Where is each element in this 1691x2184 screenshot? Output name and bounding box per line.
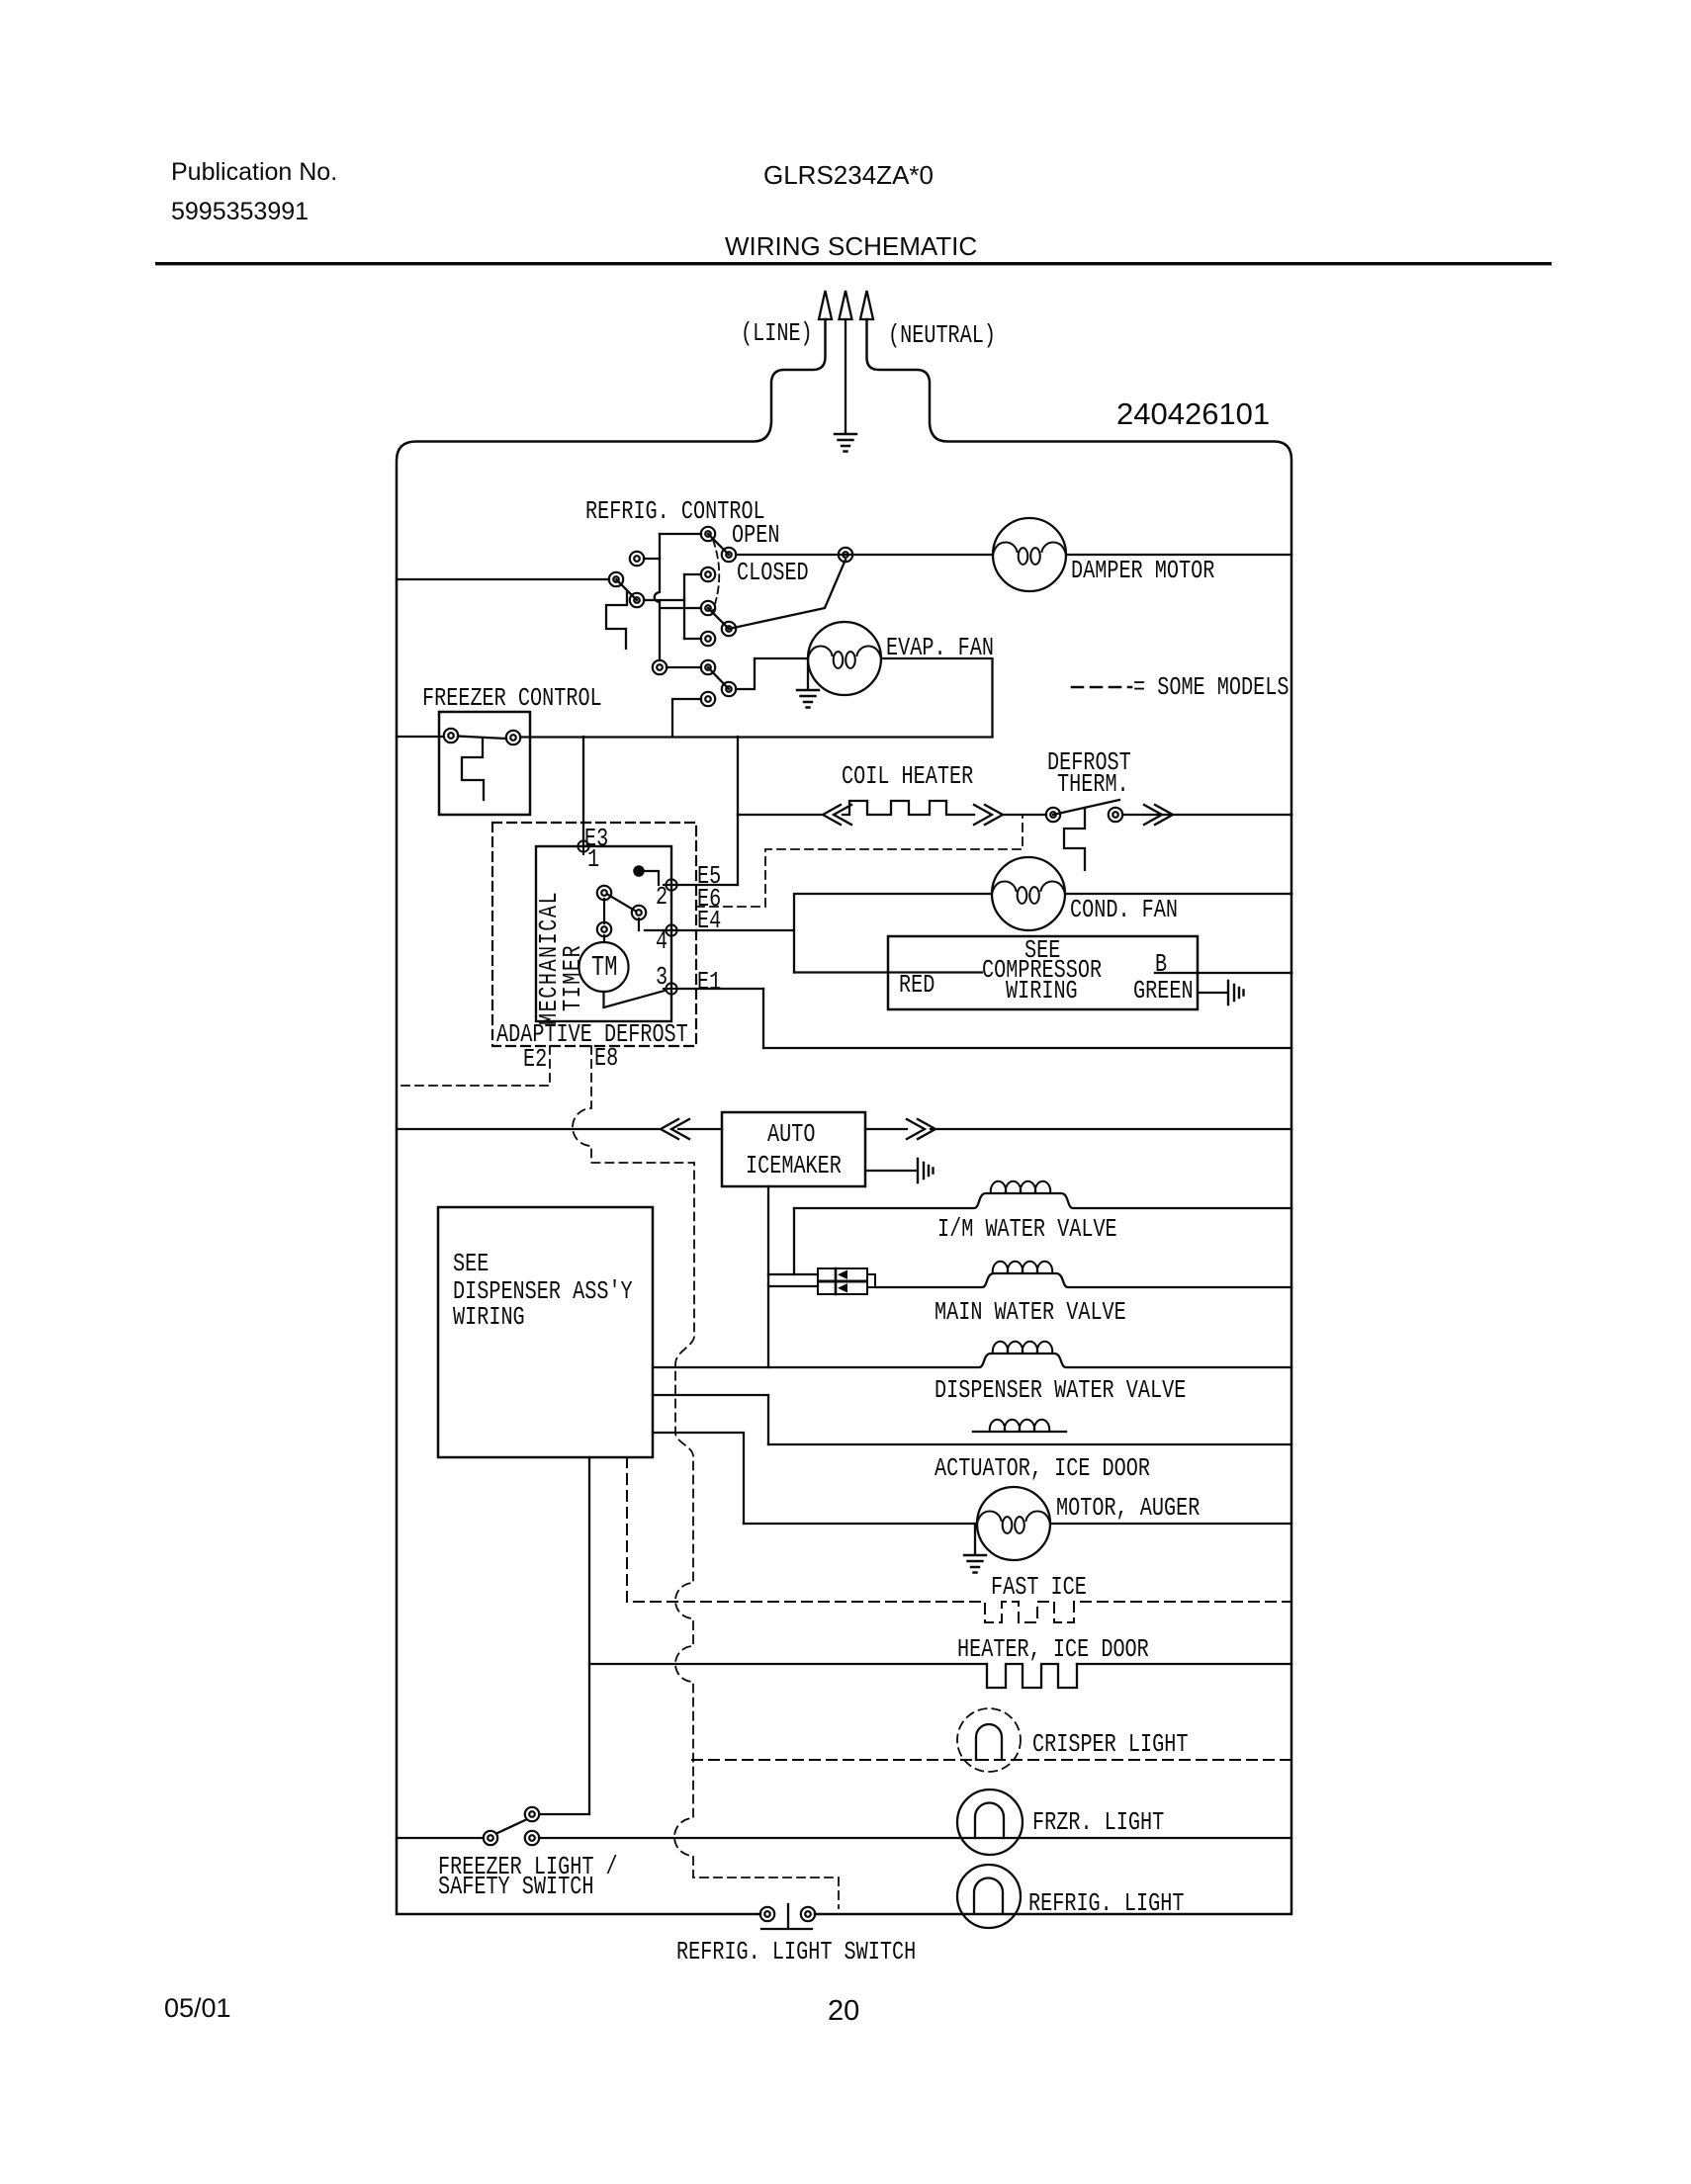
switch blade refrig control common — [616, 579, 637, 600]
blade row3 — [708, 608, 729, 629]
cond fan feed riser — [794, 894, 992, 973]
ground arrowhead — [840, 291, 852, 319]
frzr light bulb — [957, 1790, 1023, 1855]
wire coil heater to defrost therm — [1003, 814, 1046, 816]
earth ground at power entry — [835, 434, 856, 452]
heater ice door element — [987, 1664, 1077, 1688]
icemaker row right — [865, 1128, 907, 1130]
icemaker row to right rail — [931, 1128, 1291, 1130]
svg-text:Publication No.: Publication No. — [171, 158, 337, 186]
safety switch upper wire — [540, 1813, 589, 1815]
freezer control staircase — [462, 740, 484, 800]
svg-text:FAST ICE: FAST ICE — [991, 1574, 1087, 1603]
terminal: freezer control right — [506, 731, 520, 744]
svg-text:ACTUATOR, ICE DOOR: ACTUATOR, ICE DOOR — [934, 1455, 1150, 1484]
terminal: row3 contact — [701, 601, 715, 615]
TM bottom stem — [602, 992, 604, 1007]
terminal: OPEN contact — [701, 527, 715, 541]
terminal: CLOSED contact — [701, 568, 715, 581]
timer blade 3 — [604, 991, 666, 1007]
dispenser to actuator link — [653, 1395, 768, 1444]
auger motor circle — [977, 1487, 1050, 1560]
water valve solenoid lower body — [818, 1282, 867, 1295]
dispenser valve row — [653, 1354, 1291, 1367]
svg-text:RED: RED — [899, 972, 934, 1001]
main border left loop with LINE entry hump — [397, 319, 826, 1914]
svg-text:DAMPER MOTOR: DAMPER MOTOR — [1071, 558, 1214, 586]
terminal: safety switch upper — [525, 1807, 539, 1821]
icemaker output drop — [767, 1186, 769, 1367]
icemaker chevrons left — [661, 1119, 689, 1139]
auger motor coil — [977, 1512, 1050, 1533]
main border right loop with NEUTRAL entry hump — [815, 319, 1291, 1914]
wire sub bus to CLOSED contact — [684, 573, 701, 575]
svg-text:4: 4 — [656, 928, 667, 957]
svg-text:5995353991: 5995353991 — [171, 198, 309, 225]
E5 wire — [665, 884, 738, 886]
chevron marks right of defrost therm — [1144, 805, 1173, 825]
E1 wire — [677, 988, 763, 990]
svg-text:E1: E1 — [697, 969, 721, 998]
solenoid upper triangle — [838, 1270, 847, 1280]
terminal: timer pivot — [597, 922, 611, 936]
terminal: timer contact 2 — [597, 886, 611, 900]
svg-text:CRISPER LIGHT: CRISPER LIGHT — [1032, 1731, 1188, 1760]
filled terminal wire — [644, 871, 659, 885]
wire wiper to damper motor — [736, 554, 993, 556]
compressor chassis ground — [1228, 981, 1244, 1005]
water valve solenoid upper body — [818, 1268, 867, 1281]
cond fan circle — [992, 857, 1065, 930]
terminal: freezer control left — [444, 729, 458, 743]
crisper light filament — [976, 1724, 1002, 1760]
refrig light bulb — [957, 1865, 1021, 1928]
svg-text:CLOSED: CLOSED — [737, 560, 809, 588]
svg-text:REFRIG. LIGHT SWITCH: REFRIG. LIGHT SWITCH — [676, 1939, 916, 1967]
terminal: refrig light switch left — [760, 1907, 774, 1921]
icemaker row to box — [678, 1128, 722, 1130]
E3 drop wire — [582, 737, 584, 846]
wire damper motor to right rail — [1066, 554, 1291, 556]
svg-text:EVAP. FAN: EVAP. FAN — [886, 635, 994, 663]
refrig control sensing staircase — [606, 592, 627, 649]
blade OPEN contact to wiper — [708, 534, 729, 555]
wire to coil heater chevron — [738, 814, 823, 816]
sub bus vertical — [683, 574, 685, 639]
terminal: row5 contact — [701, 660, 715, 674]
E1 riser — [762, 989, 764, 1048]
E8 dashed path upper — [573, 1046, 839, 1908]
evap fan coil — [808, 647, 881, 668]
main valve coil — [993, 1262, 1052, 1273]
svg-text:SAFETY SWITCH: SAFETY SWITCH — [438, 1874, 593, 1902]
svg-text:1: 1 — [587, 846, 599, 875]
svg-text:OPEN: OPEN — [732, 522, 779, 551]
damper motor coil — [993, 543, 1066, 565]
timer pivot to TM — [603, 935, 605, 942]
E2 dashed path — [397, 1046, 550, 1086]
wire left rail to freezer control — [397, 736, 443, 738]
dashed cam arc of refrig control — [712, 540, 719, 613]
crisper light dashed row — [692, 1759, 1291, 1761]
defrost therm blade — [1053, 800, 1119, 815]
svg-text:COND. FAN: COND. FAN — [1070, 897, 1178, 925]
actuator floating coil line — [973, 1431, 1066, 1433]
icemaker row left — [397, 1128, 661, 1130]
svg-text:COIL HEATER: COIL HEATER — [842, 763, 973, 792]
svg-text:(LINE): (LINE) — [741, 320, 813, 349]
wire from contact through hop to sub bus — [644, 599, 684, 601]
junction: timer pin 1 E3 — [576, 838, 591, 854]
actuator coil — [990, 1420, 1049, 1432]
icemaker chassis ground — [918, 1159, 934, 1182]
svg-text:MAIN WATER VALVE: MAIN WATER VALVE — [934, 1299, 1126, 1328]
terminal: contact 4 — [701, 632, 715, 646]
evap fan ground stem — [807, 658, 809, 689]
auger row left — [744, 1523, 977, 1525]
IM valve coil — [991, 1181, 1050, 1193]
auger row right — [1050, 1523, 1291, 1525]
timer filled terminal — [634, 866, 644, 876]
frzr row right — [539, 1837, 1291, 1839]
svg-text:E4: E4 — [697, 908, 721, 936]
E6 dashed path — [696, 815, 1023, 907]
terminal: defrost therm left — [1046, 808, 1060, 822]
svg-text:05/01: 05/01 — [164, 1993, 231, 2023]
wire bus bottom to row5 contact — [667, 666, 701, 668]
line arrowhead — [819, 291, 832, 319]
svg-text:TM: TM — [591, 951, 617, 984]
header: title rule — [155, 262, 1552, 265]
svg-text:240426101: 240426101 — [1116, 396, 1270, 431]
terminal: blade end — [630, 593, 644, 607]
svg-text:WIRING: WIRING — [453, 1304, 525, 1333]
svg-text:AUTO: AUTO — [767, 1121, 815, 1150]
refrig light filament — [974, 1878, 1003, 1914]
svg-text:THERM.: THERM. — [1057, 771, 1129, 800]
svg-text:MOTOR, AUGER: MOTOR, AUGER — [1056, 1495, 1200, 1524]
timer pivot stem — [603, 899, 605, 923]
terminal: safety switch left — [484, 1831, 497, 1845]
terminal: aux contact — [630, 552, 644, 566]
timer contact 2 stem — [608, 895, 635, 911]
compressor box — [888, 936, 1198, 1009]
safety switch blade — [497, 1820, 525, 1833]
wire to compressor RED — [794, 971, 982, 973]
wire cond fan to right rail — [1065, 893, 1291, 895]
terminal: safety switch right — [525, 1831, 539, 1845]
svg-text:2: 2 — [656, 884, 667, 913]
wire: left rail to refrig control common — [397, 578, 609, 580]
compressor B wire — [1155, 972, 1291, 974]
svg-text:GLRS234ZA*0: GLRS234ZA*0 — [763, 160, 934, 190]
terminal: bus bottom — [653, 660, 667, 674]
damper motor circle — [993, 518, 1066, 591]
wire sub bus to contact 4 — [684, 638, 701, 640]
freezer control output rail — [520, 736, 993, 738]
svg-text:GREEN: GREEN — [1133, 978, 1194, 1006]
heater ice door row left — [589, 1663, 987, 1665]
svg-text:DISPENSER ASS'Y: DISPENSER ASS'Y — [453, 1278, 633, 1307]
dispenser valve coil — [993, 1342, 1052, 1354]
defrost therm staircase — [1064, 808, 1085, 870]
compressor GREEN wire — [1198, 992, 1226, 994]
main valve row — [875, 1273, 1291, 1287]
svg-text:B: B — [1155, 951, 1167, 980]
crisper light dashed bulb — [957, 1708, 1021, 1772]
terminal: damper node junction — [839, 548, 852, 562]
svg-text:REFRIG. LIGHT: REFRIG. LIGHT — [1028, 1890, 1184, 1919]
evap fan earth ground — [797, 690, 819, 708]
mechanical timer box — [536, 846, 671, 1021]
heater ice door row right — [1077, 1663, 1291, 1665]
svg-text:FRZR. LIGHT: FRZR. LIGHT — [1032, 1809, 1164, 1838]
frzr row left — [397, 1837, 484, 1839]
svg-text:DISPENSER WATER VALVE: DISPENSER WATER VALVE — [934, 1377, 1186, 1406]
refrig control pole bus with hop — [655, 534, 660, 660]
chevron marks right of coil heater — [974, 805, 1003, 825]
freezer control box — [439, 712, 530, 815]
IM valve row with coil jog — [794, 1193, 1291, 1208]
junction: timer pin 2 E5 — [664, 877, 679, 893]
svg-text:E2: E2 — [523, 1046, 547, 1075]
wire defrost therm to right rail — [1122, 814, 1291, 816]
dispenser to auger link — [653, 1433, 744, 1524]
wire row5 wiper to evap fan — [736, 658, 808, 689]
ground wire from plug — [845, 319, 846, 432]
IM valve feed drop — [793, 1208, 795, 1274]
cond fan coil — [992, 882, 1065, 904]
riser to coil heater and E5 — [737, 737, 739, 885]
svg-text:ICEMAKER: ICEMAKER — [746, 1153, 842, 1181]
fast ice dashed element row — [627, 1457, 1291, 1622]
coil heater element — [843, 801, 974, 815]
terminal: timer middle contact — [632, 906, 646, 919]
TM motor circle — [579, 942, 629, 992]
wire row6 contact down to freezer rail — [672, 699, 701, 737]
svg-text:20: 20 — [828, 1995, 859, 2027]
svg-text:I/M WATER VALVE: I/M WATER VALVE — [937, 1216, 1117, 1245]
svg-text:WIRING SCHEMATIC: WIRING SCHEMATIC — [725, 231, 977, 261]
E4 wire from contact 4 — [638, 918, 640, 930]
frzr light filament — [975, 1803, 1004, 1839]
icemaker ground wire — [865, 1170, 916, 1172]
terminal: refrig control common — [609, 572, 623, 586]
svg-text:SEE: SEE — [453, 1251, 489, 1279]
svg-text:TIMER: TIMER — [560, 944, 588, 1011]
auger ground stem — [974, 1524, 976, 1554]
link row3 wiper to damper node — [729, 560, 845, 629]
solenoid lower triangle — [838, 1283, 847, 1293]
terminal: defrost therm right — [1109, 808, 1122, 822]
svg-text:= SOME MODELS: = SOME MODELS — [1133, 674, 1289, 703]
dispenser assy box — [438, 1207, 653, 1457]
terminal: row6 contact — [701, 692, 715, 706]
svg-text:HEATER, ICE DOOR: HEATER, ICE DOOR — [957, 1636, 1149, 1665]
adaptive defrost dashed box — [492, 823, 696, 1046]
actuator row — [768, 1443, 1291, 1445]
svg-text:(NEUTRAL): (NEUTRAL) — [888, 322, 996, 351]
legend dashes — [1072, 686, 1131, 689]
chevron marks left of coil heater — [823, 805, 851, 825]
wire bus to OPEN contact — [660, 533, 701, 535]
svg-text:E8: E8 — [594, 1045, 618, 1074]
auger earth ground — [964, 1555, 986, 1573]
solenoid check valve bars — [835, 1268, 838, 1294]
terminal: refrig light switch right — [801, 1907, 815, 1921]
svg-text:WIRING: WIRING — [1006, 978, 1078, 1006]
freezer control blade — [458, 737, 506, 740]
neutral arrowhead — [860, 291, 873, 319]
solenoid lower stub — [768, 1285, 818, 1287]
solenoid outlet tab — [867, 1274, 875, 1287]
blade row5 — [708, 667, 729, 689]
terminal: row3 wiper — [722, 622, 736, 636]
auto icemaker box — [722, 1112, 865, 1186]
wire evap fan to riser — [881, 658, 993, 737]
junction: timer pin 4 E4 — [664, 922, 679, 938]
dispenser box bottom drop long — [588, 1457, 590, 1813]
wire contact to bus — [644, 558, 660, 560]
wire bus to row3 contact — [661, 607, 701, 609]
evap fan circle — [808, 622, 881, 695]
E1 bottom row — [763, 1047, 1291, 1049]
svg-text:3: 3 — [656, 964, 667, 993]
icemaker chevrons right — [907, 1119, 935, 1139]
E4 wire — [645, 929, 794, 931]
terminal: wiper pivot — [722, 548, 736, 562]
svg-text:FREEZER CONTROL: FREEZER CONTROL — [422, 685, 602, 714]
refrig light switch plunger — [761, 1904, 812, 1929]
terminal: row5 wiper — [722, 682, 736, 696]
junction: timer pin 3 E1 — [664, 981, 679, 997]
solenoid upper stub — [768, 1273, 818, 1275]
